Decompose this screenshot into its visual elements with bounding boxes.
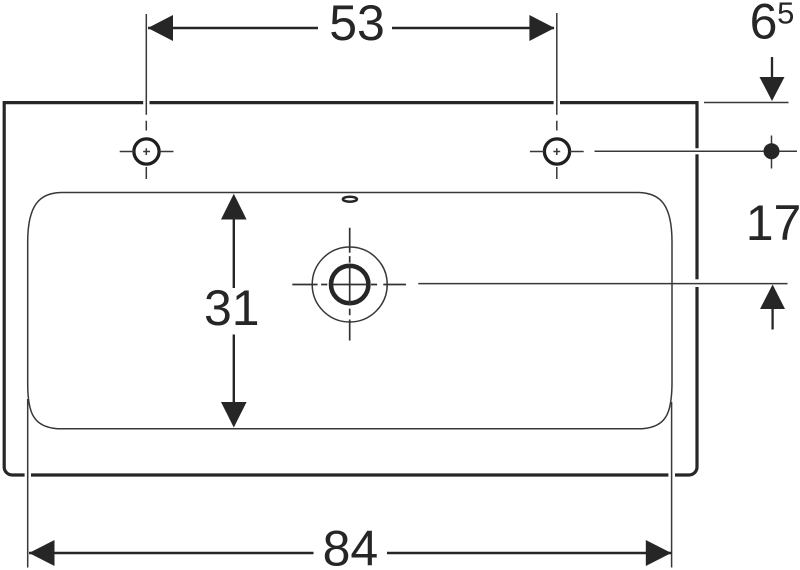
dim 31: dimension line [233,220,235,403]
gaps in rim where thin lines cross [25,100,700,478]
dim 84: dimension line [29,552,672,554]
dim 31: arrow up [221,194,247,220]
dim 84: arrow left [29,540,55,566]
dim 53: arrow left [148,15,173,41]
dim 6.5: top edge reference line [704,102,789,104]
svg-text:84: 84 [323,521,379,570]
dim 17: arrow up [760,285,785,310]
dim 53: extension line left [145,14,147,115]
dim 84: arrow right [646,540,672,566]
dim 17: datum dot stub [771,136,773,169]
dim 53: extension line right [556,13,558,115]
drain crosshair horizontal [292,284,406,286]
drain outer circle [312,247,387,322]
svg-text:17: 17 [746,195,800,251]
dim 31: arrow down [221,402,247,428]
svg-text:31: 31 [204,280,260,336]
overflow slot [343,197,357,202]
dim 17: drain level line [418,283,787,285]
inner bowl outline [28,193,672,429]
svg-text:53: 53 [329,0,385,51]
dim 53: dimension line [148,27,554,29]
dim 17: tap hole height reference line [595,150,798,152]
tap hole left [134,139,159,164]
dim 84: extension line right [671,402,673,568]
dim 6.5: arrow down [771,57,773,79]
tap hole right [544,139,569,164]
washbasin outer rim (top view) [4,103,697,475]
drain crosshair vertical [349,228,351,341]
dim 17: datum dot [764,143,780,159]
drain inner ring [331,266,368,303]
svg-text:6: 6 [750,0,778,50]
dim 84: extension line left [27,399,29,568]
svg-text:5: 5 [777,0,794,31]
tap hole left crosshair [120,121,174,179]
tap hole right crosshair [530,121,584,179]
dim 53: arrow right [529,15,554,41]
